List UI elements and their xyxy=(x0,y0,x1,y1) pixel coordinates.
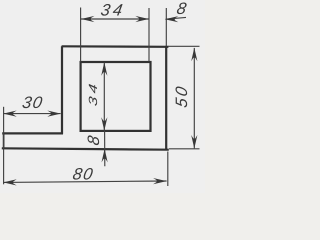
outer profile step top edge xyxy=(2,132,63,134)
outer profile left edge xyxy=(3,133,5,149)
arrow 34 top left xyxy=(81,16,95,22)
svg-text:50: 50 xyxy=(172,83,191,109)
dimension line 34 top xyxy=(81,18,149,20)
svg-text:30: 30 xyxy=(21,93,45,112)
svg-text:34: 34 xyxy=(87,79,100,107)
extension line left edge (30/80) xyxy=(3,107,5,185)
outer profile top edge xyxy=(62,45,169,48)
outer profile right edge xyxy=(165,46,167,150)
extension line 50 bottom xyxy=(169,148,200,150)
arrow 8 bottom pointing up xyxy=(102,149,108,163)
extension line right of top 8 xyxy=(165,8,167,46)
arrow 30 right xyxy=(47,111,61,117)
arrow 80 right xyxy=(153,178,167,184)
svg-text:80: 80 xyxy=(71,165,95,184)
arrow 34 top right / 8 left shared xyxy=(135,16,149,22)
arrow 34 vertical top xyxy=(101,62,107,76)
arrow 30 left xyxy=(3,111,17,117)
dimension line 50 xyxy=(193,48,195,148)
outer profile mid-left edge xyxy=(61,46,63,134)
dimension line 8 bottom stem xyxy=(104,131,106,167)
extension line between 34 and 8 xyxy=(148,8,150,62)
arrow 80 left xyxy=(3,179,17,185)
inner square hole xyxy=(81,62,151,131)
dimension line 8 top stem xyxy=(166,17,187,19)
arrow 50 bottom xyxy=(191,135,197,149)
extension line left of top 34 xyxy=(80,8,82,62)
arrow 8 top right pointing left xyxy=(165,16,179,22)
extension line right of 80 xyxy=(167,152,169,187)
dimension line 30 xyxy=(3,113,60,115)
dimension line 80 xyxy=(3,181,166,182)
svg-text:34: 34 xyxy=(99,1,127,20)
outer profile bottom edge xyxy=(2,148,169,149)
dimension line 34 vertical xyxy=(103,62,105,130)
arrow 34 vertical bottom / 8 top shared xyxy=(101,117,107,131)
paper background xyxy=(0,0,205,193)
arrow 50 top xyxy=(191,48,197,62)
extension line 50 top xyxy=(168,45,200,47)
